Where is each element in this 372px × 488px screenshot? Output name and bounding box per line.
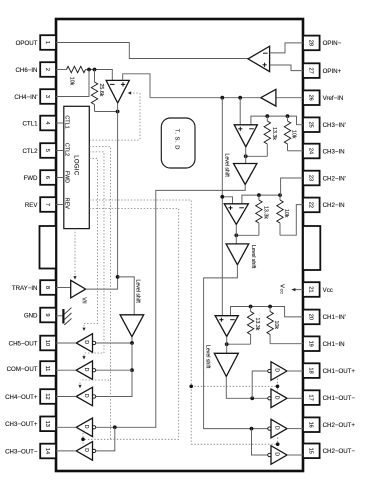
wire CH2 + input from Vref rail xyxy=(222,197,232,204)
svg-text:CH2−IN: CH2−IN xyxy=(323,202,345,209)
junction driver 11 input xyxy=(130,368,134,372)
svg-text:V: V xyxy=(279,284,285,288)
svg-text:17: 17 xyxy=(307,394,313,400)
svg-text:CTL2: CTL2 xyxy=(64,143,70,156)
pin 5 CTL2 (left) xyxy=(22,143,56,158)
svg-text:Level shift: Level shift xyxy=(250,245,256,269)
pin 1 OPOUT (left) xyxy=(16,35,56,50)
wire CH3 inverted branch to driver 14 xyxy=(92,427,115,451)
junction CH3 output xyxy=(244,154,248,158)
wire CH1 branch to driver 18 xyxy=(252,371,268,398)
svg-text:CH2−INʹ: CH2−INʹ xyxy=(323,175,346,182)
pin 7 REV (left) xyxy=(25,197,56,212)
junction CH2 out split xyxy=(250,427,254,431)
wire driver 10 input line xyxy=(94,342,132,344)
level shift CH3 xyxy=(224,154,257,185)
wire driver D11 output to pin 11 xyxy=(56,369,76,371)
svg-text:GND: GND xyxy=(24,312,38,319)
svg-text:Vcc: Vcc xyxy=(323,287,333,294)
output driver D17 (pin 17) xyxy=(268,389,287,408)
svg-text:Level shift: Level shift xyxy=(134,280,140,304)
output driver D16 (pin 16) xyxy=(268,419,287,438)
IC body outline xyxy=(56,19,303,471)
pin 9 GND (left) xyxy=(24,308,56,323)
svg-text:10k: 10k xyxy=(69,77,75,86)
resistor 10k (CH1 input) xyxy=(267,307,279,344)
svg-text:D: D xyxy=(274,452,280,456)
output driver D11 (pin 11) xyxy=(76,361,96,380)
wire U2 feedback bottom xyxy=(95,111,118,113)
svg-text:7: 7 xyxy=(44,203,50,206)
wire pin 8 TRAY-IN to V/I amp xyxy=(56,287,71,289)
junction driver10/11 chain xyxy=(130,341,134,345)
wire driver D13 output to pin 13 xyxy=(56,426,76,428)
svg-text:2: 2 xyxy=(44,68,50,71)
V/I converter amp xyxy=(71,280,87,303)
pin 24 CH3−IN (right) xyxy=(303,144,345,159)
junction level-shift feed xyxy=(116,275,120,279)
svg-text:CH1−OUT+: CH1−OUT+ xyxy=(323,368,356,375)
wire CH2 feedback to output node xyxy=(236,234,259,236)
wire CH1 inverting rail xyxy=(231,307,304,317)
svg-text:25: 25 xyxy=(307,122,313,128)
pin 27 OPIN+ (right) xyxy=(303,63,342,78)
svg-text:9: 9 xyxy=(44,313,50,316)
right heatsink tab pin xyxy=(303,226,320,270)
wire CH3 inverting rail xyxy=(251,116,303,125)
svg-text:OPIN−: OPIN− xyxy=(323,40,342,47)
wire OPOUT net: pin1 to op-amp U1 output xyxy=(56,43,248,59)
pin 28 OPIN− (right) xyxy=(303,36,342,51)
wire U1 inverting input to pin 28 OPIN- xyxy=(270,43,303,53)
wire driver 11 input line xyxy=(94,369,132,371)
dotted rail to drivers 15/16 xyxy=(191,438,278,448)
pin 13 CH3−OUT+ (left) xyxy=(5,417,56,432)
resistor 13.3k (CH2 feedback) xyxy=(256,195,269,235)
svg-text:CTL1: CTL1 xyxy=(64,115,70,128)
svg-text:D: D xyxy=(83,448,89,452)
junction dotted d17/18 tap xyxy=(276,385,280,389)
junction CH2 rail 10k xyxy=(278,193,282,197)
pin 8 TRAY−IN (left) xyxy=(12,280,56,295)
svg-text:CH6−IN: CH6−IN xyxy=(15,67,37,74)
wire CH2 level shift output routing to right drivers xyxy=(204,265,268,429)
wire driver D17 output to pin 17 xyxy=(287,397,303,399)
junction CH2 output xyxy=(234,233,238,237)
wire level shift output to driver 10 line xyxy=(131,337,133,343)
wire CH1 output to level shift xyxy=(226,337,228,354)
dotted rail to drivers 13/14 xyxy=(83,209,179,446)
pin 14 CH3−OUT− (left) xyxy=(5,444,56,459)
junction CH3 rail 10k xyxy=(286,114,290,118)
wire driver D14 output to pin 14 xyxy=(56,450,76,452)
pin 18 CH1−OUT+ (right) xyxy=(303,363,355,378)
wire driver D16 output to pin 16 xyxy=(287,428,303,430)
wire chain down to driver 12 xyxy=(94,370,132,396)
svg-text:CH5−OUT: CH5−OUT xyxy=(9,340,38,347)
svg-text:CH2−OUT+: CH2−OUT+ xyxy=(323,422,356,429)
svg-text:23: 23 xyxy=(307,175,313,181)
junction CH1 out split xyxy=(250,396,254,400)
svg-text:27: 27 xyxy=(307,67,313,73)
svg-text:16: 16 xyxy=(307,422,313,428)
junction CH3 out split xyxy=(113,425,117,429)
svg-text:D: D xyxy=(274,396,280,400)
svg-text:CH1−OUT−: CH1−OUT− xyxy=(323,395,356,402)
output driver D12 (pin 12) xyxy=(76,387,96,406)
level shift CH1 xyxy=(205,345,239,377)
svg-text:24: 24 xyxy=(307,148,313,154)
resistor 10k (CH3 input) xyxy=(284,116,296,151)
pin 17 CH1−OUT− (right) xyxy=(303,390,355,405)
junction dotted drivers 13/14 xyxy=(81,438,85,442)
wire CH1 level shift output to driver 17 xyxy=(226,377,267,399)
resistor 13.3k (CH1 feedback) xyxy=(247,307,260,345)
resistor 25.6k (feedback) xyxy=(91,70,104,112)
svg-text:3: 3 xyxy=(44,95,50,98)
resistor 10k (CH2 input) xyxy=(277,195,289,235)
wire Vref line to left (to U2+) xyxy=(150,97,261,99)
wire CH2 branch to driver 15 xyxy=(252,429,268,455)
svg-text:13.3k: 13.3k xyxy=(271,127,277,140)
wire pin 4 CTL1 to LOGIC xyxy=(56,122,64,124)
pin 3 CH4−INʹ (left) xyxy=(14,89,56,104)
svg-text:REV: REV xyxy=(64,198,70,209)
svg-text:REV: REV xyxy=(25,202,39,209)
pin 25 CH3−INʹ (right) xyxy=(303,117,346,132)
svg-text:CH3−OUT−: CH3−OUT− xyxy=(5,448,38,455)
pin 6 FWD (left) xyxy=(24,170,56,185)
op-amp U1 (OPIN amp, output to OPOUT) xyxy=(248,46,270,71)
pin 21 Vcc (right) xyxy=(303,282,333,297)
level shift CH2 xyxy=(226,244,256,269)
svg-text:10: 10 xyxy=(44,340,50,346)
svg-text:6: 6 xyxy=(44,176,50,179)
junction Vref-CH123 rail xyxy=(220,96,224,100)
svg-text:V/I: V/I xyxy=(80,297,86,303)
junction Vref-CH3+ xyxy=(238,96,242,100)
dotted control bus line 1 (to driver 10) xyxy=(82,158,97,331)
wire driver D10 output to pin 10 xyxy=(56,342,76,344)
svg-text:4: 4 xyxy=(44,121,50,124)
svg-text:Vref−IN: Vref−IN xyxy=(323,95,344,102)
wire pin 7 REV to LOGIC xyxy=(56,204,64,206)
junction CH1 rail 13.3k xyxy=(249,305,253,309)
T.S.D thermal shutdown block xyxy=(161,118,195,168)
pin 11 COM−OUT (left) xyxy=(7,361,56,376)
wire driver D18 output to pin 18 xyxy=(287,370,303,372)
svg-text:14: 14 xyxy=(44,448,50,454)
wire pin 26 Vref-IN to buffer input xyxy=(276,97,303,99)
svg-text:OPIN+: OPIN+ xyxy=(323,68,342,75)
svg-text:CH1−IN: CH1−IN xyxy=(323,341,345,348)
wire 10k to U2 inverting input, summing node xyxy=(86,70,113,81)
pin 12 CH4−OUT+ (left) xyxy=(5,389,56,404)
svg-text:25.6k: 25.6k xyxy=(98,84,104,97)
svg-text:10k: 10k xyxy=(273,321,279,330)
Vref vertical rail down to CH2+/CH1+ xyxy=(221,98,223,316)
wire U2 non-inverting input to Vref line xyxy=(123,74,150,98)
junction CH1 output xyxy=(225,342,229,346)
wire driver D15 output to pin 15 xyxy=(287,454,303,456)
pin 26 Vref−IN (right) xyxy=(303,90,343,105)
pin 16 CH2−OUT+ (right) xyxy=(303,417,355,432)
svg-text:TRAY−IN: TRAY−IN xyxy=(12,285,38,292)
svg-text:11: 11 xyxy=(44,366,50,372)
junction node CH6 summing B xyxy=(93,68,97,72)
LOGIC block xyxy=(64,106,90,228)
dotted rail to drivers 17/18 xyxy=(89,200,277,444)
op-amp CH3 xyxy=(234,125,257,147)
svg-text:8: 8 xyxy=(44,286,50,289)
junction U2 output xyxy=(116,110,120,114)
op-amp CH1 xyxy=(215,316,238,337)
wire CH3 output to level shift xyxy=(245,147,247,164)
svg-text:CC: CC xyxy=(280,289,284,295)
wire driver D12 output to pin 12 xyxy=(56,396,76,398)
svg-text:D: D xyxy=(83,340,89,344)
svg-text:1: 1 xyxy=(44,41,50,44)
junction dotted d15/16 tap xyxy=(276,442,280,446)
wire CH3 + input from Vref xyxy=(239,98,241,125)
svg-text:CH3−INʹ: CH3−INʹ xyxy=(323,122,346,129)
wire pin 5 CTL2 to LOGIC xyxy=(56,150,64,152)
svg-text:20: 20 xyxy=(307,314,313,320)
svg-text:28: 28 xyxy=(307,40,313,46)
svg-text:19: 19 xyxy=(307,341,313,347)
dotted control bus line 2 (to driver 11) xyxy=(82,152,104,360)
wire CH1 10k to pin 19 CH1-IN xyxy=(270,343,303,345)
pin 10 CH5−OUT (left) xyxy=(9,336,56,351)
svg-text:FWD: FWD xyxy=(24,175,39,182)
op-amp U2 (CH6/CH4 input amp) xyxy=(106,80,129,103)
svg-text:CH3−IN: CH3−IN xyxy=(323,148,345,155)
Vref buffer amp xyxy=(261,89,276,106)
svg-text:D: D xyxy=(83,425,89,429)
left heatsink tab pin xyxy=(40,226,57,269)
output driver D14 (pin 14) xyxy=(76,442,96,461)
svg-text:D: D xyxy=(274,426,280,430)
wire pin 3 CH4-IN' to summing node xyxy=(56,70,89,97)
Vcc supply arrow at pin 21 xyxy=(279,284,303,294)
ground symbol at pin 9 xyxy=(56,308,72,325)
resistor 10k (CH6 input) xyxy=(67,66,86,85)
wire CH3 10k to pin 24 CH3-IN xyxy=(288,150,304,152)
svg-text:26: 26 xyxy=(307,95,313,101)
svg-text:CTL1: CTL1 xyxy=(22,120,38,127)
svg-text:COM−OUT: COM−OUT xyxy=(7,366,38,373)
output driver D15 (pin 15) xyxy=(268,446,287,465)
output driver D18 (pin 18) xyxy=(268,362,287,381)
svg-text:12: 12 xyxy=(44,393,50,399)
dotted control bus line 3 (to driver 12 and long rail) xyxy=(78,147,110,440)
wire pin 2 CH6-IN to resistor 10k xyxy=(56,69,67,71)
svg-text:10k: 10k xyxy=(283,209,289,218)
wire CH2 output to level shift xyxy=(235,225,237,244)
svg-text:CTL2: CTL2 xyxy=(22,148,38,155)
junction dotted rail d17/18 xyxy=(189,385,193,389)
wire U1 non-inverting input to pin 27 OPIN+ xyxy=(270,65,303,71)
wire pin 6 FWD to LOGIC xyxy=(56,177,64,179)
pin 2 CH6−IN (left) xyxy=(15,62,56,77)
op-amp CH2 xyxy=(224,204,248,225)
pin 19 CH1−IN (right) xyxy=(303,336,345,351)
junction Vref rail CH2+ xyxy=(220,195,224,199)
svg-text:CH1−INʹ: CH1−INʹ xyxy=(323,314,346,321)
svg-text:18: 18 xyxy=(307,367,313,373)
pin 4 CTL1 (left) xyxy=(22,116,56,131)
output driver D13 (pin 13) xyxy=(76,418,96,437)
dotted control from LOGIC to V/I amp xyxy=(73,229,76,280)
level shift CH4/CH6 xyxy=(120,280,144,337)
junction node CH6 summing A xyxy=(87,68,91,72)
wire to CH4 level shift input xyxy=(118,277,135,315)
svg-text:D: D xyxy=(274,368,280,372)
svg-text:22: 22 xyxy=(307,202,313,208)
pin 22 CH2−IN (right) xyxy=(303,198,345,213)
svg-text:Level shift: Level shift xyxy=(205,345,211,369)
svg-text:OPOUT: OPOUT xyxy=(16,40,38,47)
wire CH3 level shift output routing to left drivers xyxy=(93,185,246,428)
junction CH2 rail 13.3k xyxy=(257,193,261,197)
control arrow into U2 (mute from LOGIC) xyxy=(89,91,140,140)
pin 23 CH2−INʹ (right) xyxy=(303,171,346,186)
svg-text:D: D xyxy=(83,368,89,372)
svg-text:13.3k: 13.3k xyxy=(254,318,260,331)
output driver D10 (pin 10) xyxy=(76,334,96,353)
wire V/I output join CH6 node xyxy=(86,277,118,289)
pin 15 CH2−OUT− (right) xyxy=(303,444,355,459)
svg-text:LOGIC: LOGIC xyxy=(73,155,79,176)
svg-text:CH4−OUT+: CH4−OUT+ xyxy=(5,394,38,401)
svg-text:5: 5 xyxy=(44,149,50,152)
svg-text:FWD: FWD xyxy=(64,171,70,183)
svg-text:21: 21 xyxy=(307,286,313,292)
wire CH2 inverting rail xyxy=(242,195,280,204)
wire CH2 10k to pin 22 CH2-IN xyxy=(280,205,303,236)
svg-text:T. S. D: T. S. D xyxy=(173,129,179,150)
resistor 13.3k (CH3 feedback) xyxy=(264,116,277,156)
svg-text:CH4−INʹ: CH4−INʹ xyxy=(14,94,37,101)
svg-text:CH3−OUT+: CH3−OUT+ xyxy=(5,421,38,428)
svg-text:15: 15 xyxy=(307,448,313,454)
svg-text:10k: 10k xyxy=(291,130,297,139)
svg-text:13: 13 xyxy=(44,421,50,427)
junction CH1 rail 10k xyxy=(268,305,272,309)
wire chain down to driver 11 xyxy=(131,343,133,370)
junction CH3 rail 13.3k xyxy=(265,114,269,118)
svg-text:Level shift: Level shift xyxy=(224,154,230,178)
svg-text:13.3k: 13.3k xyxy=(262,206,268,219)
pin 20 CH1−INʹ (right) xyxy=(303,310,346,325)
svg-text:D: D xyxy=(83,394,89,398)
wire pin 23 CH2-IN' to rail xyxy=(281,178,303,195)
wire CH3 feedback to output node xyxy=(246,155,268,157)
wire CH1 feedback to output node xyxy=(227,343,251,345)
wire U2 output down to level-shift node xyxy=(117,103,119,277)
svg-text:CH2−OUT−: CH2−OUT− xyxy=(323,448,356,455)
